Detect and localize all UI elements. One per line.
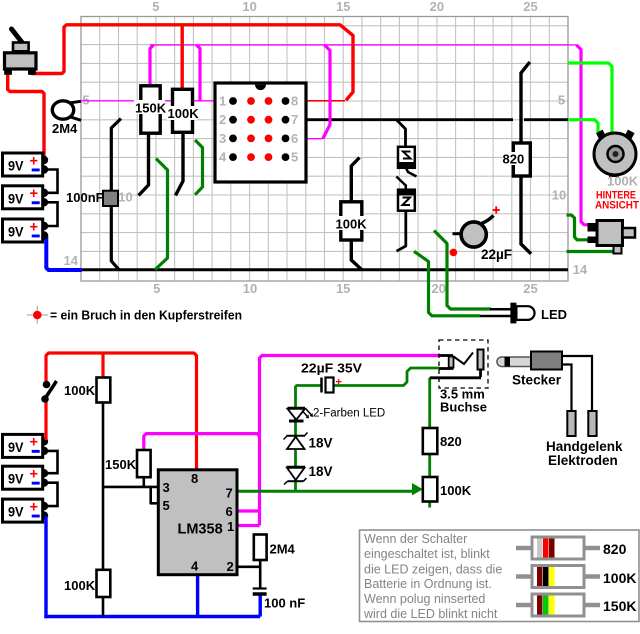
svg-text:9V: 9V bbox=[8, 190, 24, 206]
svg-text:9V: 9V bbox=[8, 158, 24, 174]
svg-text:15: 15 bbox=[336, 0, 350, 14]
svg-text:+: + bbox=[30, 153, 38, 169]
svg-text:8: 8 bbox=[191, 471, 198, 486]
svg-text:25: 25 bbox=[523, 0, 537, 14]
svg-text:5: 5 bbox=[152, 0, 159, 14]
svg-text:10: 10 bbox=[118, 190, 132, 205]
svg-text:150K: 150K bbox=[135, 101, 167, 116]
svg-text:820: 820 bbox=[440, 434, 462, 449]
svg-text:6: 6 bbox=[291, 131, 298, 146]
svg-text:4: 4 bbox=[219, 150, 227, 165]
svg-text:100K: 100K bbox=[603, 570, 636, 586]
svg-text:14: 14 bbox=[63, 253, 78, 268]
svg-text:10: 10 bbox=[552, 188, 566, 203]
svg-text:eingeschaltet ist, blinkt: eingeschaltet ist, blinkt bbox=[364, 547, 490, 561]
svg-text:7: 7 bbox=[226, 486, 233, 501]
svg-text:6: 6 bbox=[226, 504, 233, 519]
svg-text:5: 5 bbox=[153, 281, 160, 296]
svg-text:5: 5 bbox=[291, 150, 298, 165]
svg-text:Wenn polug ninserted: Wenn polug ninserted bbox=[364, 592, 485, 606]
svg-text:9V: 9V bbox=[8, 471, 24, 487]
svg-text:9V: 9V bbox=[8, 224, 24, 240]
svg-text:+: + bbox=[336, 377, 342, 389]
svg-text:2: 2 bbox=[219, 112, 226, 127]
svg-text:150K: 150K bbox=[105, 457, 137, 472]
svg-text:+: + bbox=[30, 219, 38, 235]
svg-text:100 nF: 100 nF bbox=[264, 596, 305, 611]
svg-text:die LED zeigen, dass die: die LED zeigen, dass die bbox=[364, 563, 502, 577]
svg-text:820: 820 bbox=[603, 541, 627, 557]
svg-text:10: 10 bbox=[242, 0, 256, 14]
svg-text:100K: 100K bbox=[336, 217, 368, 232]
svg-text:Elektroden: Elektroden bbox=[548, 453, 618, 468]
svg-text:2M4: 2M4 bbox=[270, 542, 296, 557]
svg-text:1: 1 bbox=[219, 94, 226, 109]
svg-text:+: + bbox=[30, 499, 38, 515]
svg-text:Wenn der Schalter: Wenn der Schalter bbox=[364, 532, 467, 546]
svg-text:22µF 35V: 22µF 35V bbox=[301, 361, 362, 376]
svg-text:LED: LED bbox=[541, 307, 567, 322]
svg-text:20: 20 bbox=[430, 0, 444, 14]
svg-text:5: 5 bbox=[163, 498, 170, 513]
svg-text:4: 4 bbox=[191, 559, 199, 574]
svg-text:22µF: 22µF bbox=[481, 247, 512, 262]
svg-text:Buchse: Buchse bbox=[440, 400, 487, 415]
svg-text:100nF: 100nF bbox=[66, 190, 104, 205]
svg-text:wird die LED blinkt nicht: wird die LED blinkt nicht bbox=[363, 607, 498, 621]
svg-text:100K: 100K bbox=[64, 383, 96, 398]
svg-text:820: 820 bbox=[503, 152, 525, 167]
svg-text:18V: 18V bbox=[309, 464, 333, 479]
svg-text:Handgelenk: Handgelenk bbox=[546, 439, 623, 454]
svg-text:100K: 100K bbox=[168, 106, 200, 121]
svg-text:7: 7 bbox=[291, 112, 298, 127]
svg-text:8: 8 bbox=[291, 94, 298, 109]
svg-text:100K: 100K bbox=[64, 578, 96, 593]
svg-text:3: 3 bbox=[163, 480, 170, 495]
svg-text:Batterie in Ordnung ist.: Batterie in Ordnung ist. bbox=[364, 577, 492, 591]
svg-text:150K: 150K bbox=[603, 598, 636, 614]
svg-text:5: 5 bbox=[558, 93, 565, 108]
svg-text:2M4: 2M4 bbox=[52, 121, 78, 136]
svg-text:18V: 18V bbox=[309, 436, 333, 451]
svg-text:Stecker: Stecker bbox=[512, 373, 562, 388]
svg-text:LM358: LM358 bbox=[178, 522, 223, 538]
svg-text:10: 10 bbox=[243, 281, 257, 296]
svg-text:9V: 9V bbox=[8, 504, 24, 520]
svg-text:15: 15 bbox=[336, 281, 350, 296]
svg-text:100K: 100K bbox=[440, 483, 472, 498]
svg-text:= ein Bruch in den Kupferstrei: = ein Bruch in den Kupferstreifen bbox=[50, 308, 242, 323]
svg-text:14: 14 bbox=[573, 262, 588, 277]
svg-text:9V: 9V bbox=[8, 439, 24, 455]
svg-text:ANSICHT: ANSICHT bbox=[595, 200, 639, 212]
svg-text:1: 1 bbox=[227, 519, 234, 534]
svg-text:+: + bbox=[30, 186, 38, 202]
svg-text:25: 25 bbox=[523, 281, 537, 296]
svg-text:5: 5 bbox=[82, 93, 89, 108]
svg-text:+: + bbox=[30, 467, 38, 483]
svg-text:2-Farben LED: 2-Farben LED bbox=[313, 408, 385, 420]
svg-text:+: + bbox=[30, 435, 38, 451]
svg-text:2: 2 bbox=[227, 559, 234, 574]
svg-text:20: 20 bbox=[431, 281, 445, 296]
svg-text:3: 3 bbox=[219, 131, 226, 146]
svg-text:100K: 100K bbox=[607, 174, 639, 189]
